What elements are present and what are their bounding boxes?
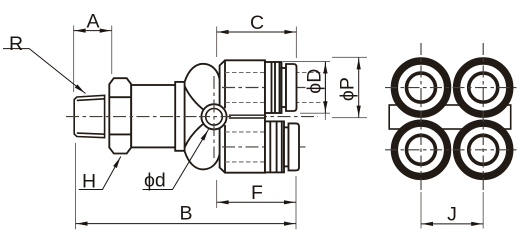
back square bbox=[389, 105, 511, 129]
upper crotch arc bbox=[185, 86, 205, 111]
lower cap rings bbox=[265, 121, 299, 172]
lower bulb bbox=[185, 151, 220, 169]
tube circle top-right bbox=[457, 61, 510, 114]
svg-text:R: R bbox=[9, 33, 23, 55]
dim A extension lines bbox=[74, 26, 112, 93]
dim C line bbox=[217, 31, 297, 33]
svg-text:A: A bbox=[86, 11, 99, 33]
upper port hidden bore lines bbox=[225, 73, 328, 103]
dim B extension line left bbox=[75, 143, 77, 229]
small circle horizontal centerline bbox=[199, 116, 231, 118]
cylinder bbox=[131, 85, 179, 147]
dim A line bbox=[74, 30, 112, 32]
tube circle bottom-left bbox=[394, 123, 447, 176]
leader H bbox=[79, 157, 121, 190]
tube circle bottom-right bbox=[457, 123, 510, 176]
small circle phi-d bbox=[201, 104, 226, 129]
vertical centerline left circles bbox=[420, 43, 422, 190]
svg-text:ϕD: ϕD bbox=[303, 69, 325, 94]
dim J extension lines bbox=[421, 192, 483, 229]
leader R bbox=[3, 49, 86, 94]
lower port centerline bbox=[222, 146, 306, 148]
upper bulb bbox=[185, 64, 220, 82]
lower crotch arc bbox=[185, 123, 205, 148]
dim phi D line bbox=[324, 62, 326, 121]
svg-text:C: C bbox=[250, 12, 264, 34]
small circle vertical centerline bbox=[213, 76, 215, 158]
vertical centerline right circles bbox=[482, 43, 484, 190]
thread R1 body bbox=[74, 95, 104, 137]
svg-text:F: F bbox=[251, 182, 263, 204]
upper port centerline bbox=[222, 87, 306, 89]
collar band bbox=[175, 82, 184, 151]
dim J line bbox=[421, 223, 483, 225]
dim phi P extension lines bbox=[332, 57, 367, 117]
leader phi d bbox=[143, 129, 209, 189]
upper cap rings bbox=[265, 62, 297, 113]
horizontal centerline top circles bbox=[385, 87, 517, 89]
dim phi D extension lines bbox=[283, 62, 330, 114]
svg-text:ϕP: ϕP bbox=[337, 77, 359, 101]
dim C extension lines bbox=[217, 27, 297, 59]
body block bbox=[220, 60, 265, 172]
main centerline bbox=[66, 116, 318, 118]
svg-text:ϕd: ϕd bbox=[144, 170, 166, 192]
hex nut bbox=[109, 78, 131, 153]
dim F line bbox=[217, 201, 296, 203]
dim F extension lines bbox=[217, 176, 296, 229]
lower port hidden bore lines bbox=[225, 132, 298, 162]
dim B line bbox=[76, 223, 297, 225]
dim phi P line bbox=[358, 57, 360, 117]
svg-text:J: J bbox=[447, 204, 457, 226]
tube circle top-left bbox=[394, 61, 447, 114]
waist lines bbox=[229, 115, 265, 118]
svg-text:B: B bbox=[179, 202, 192, 224]
horizontal centerline bottom circles bbox=[385, 149, 517, 151]
